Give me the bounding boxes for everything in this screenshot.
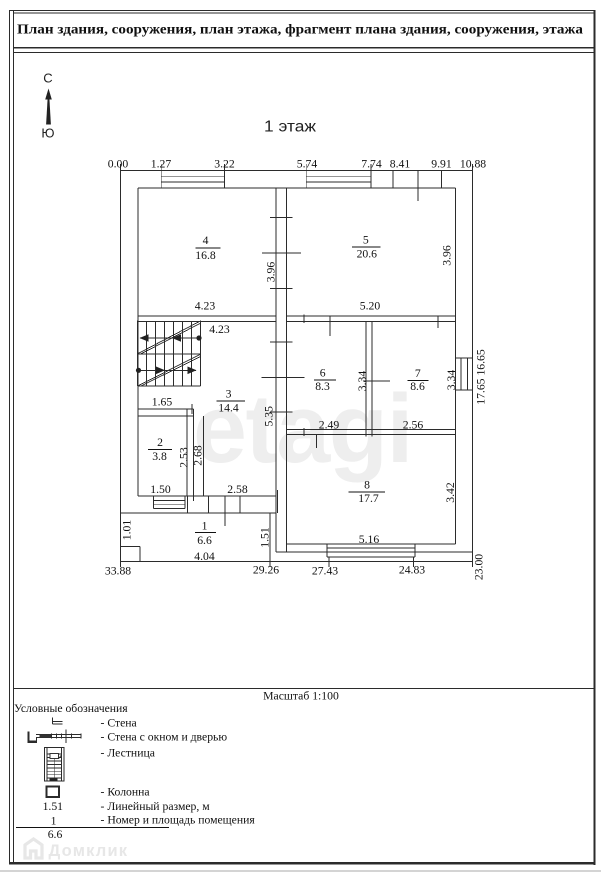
svg-text:6.6: 6.6: [197, 534, 212, 547]
svg-text:8.41: 8.41: [390, 158, 411, 171]
svg-text:5: 5: [363, 234, 369, 247]
svg-text:16.8: 16.8: [195, 249, 216, 262]
svg-text:Домклик: Домклик: [49, 842, 129, 860]
svg-text:- Номер и площадь помещения: - Номер и площадь помещения: [101, 814, 256, 827]
svg-text:5.74: 5.74: [297, 158, 318, 171]
svg-text:3.22: 3.22: [214, 158, 235, 171]
svg-text:8.6: 8.6: [410, 380, 425, 393]
svg-text:6.6: 6.6: [48, 828, 63, 841]
svg-text:29.26: 29.26: [253, 564, 279, 577]
svg-text:1.51: 1.51: [259, 527, 272, 548]
svg-text:3.96: 3.96: [441, 245, 454, 266]
svg-text:23.00: 23.00: [473, 554, 486, 580]
svg-text:3.42: 3.42: [444, 482, 457, 503]
svg-text:2.56: 2.56: [403, 419, 424, 432]
svg-text:С: С: [43, 71, 52, 86]
svg-text:2.68: 2.68: [192, 445, 205, 466]
svg-text:4.04: 4.04: [194, 550, 215, 563]
svg-text:1 этаж: 1 этаж: [264, 119, 317, 136]
svg-text:4: 4: [203, 234, 209, 247]
svg-text:1.65: 1.65: [152, 396, 173, 409]
svg-text:Масштаб 1:100: Масштаб 1:100: [263, 690, 339, 703]
svg-text:2.53: 2.53: [178, 447, 191, 468]
svg-text:7: 7: [415, 367, 421, 380]
svg-text:27.43: 27.43: [312, 565, 338, 578]
svg-text:1: 1: [51, 815, 57, 828]
svg-text:- Стена с окном и дверью: - Стена с окном и дверью: [101, 731, 228, 744]
svg-text:8: 8: [364, 479, 370, 492]
svg-text:Условные обозначения: Условные обозначения: [14, 702, 128, 715]
svg-text:3.34: 3.34: [445, 370, 458, 391]
svg-text:- Колонна: - Колонна: [101, 786, 151, 799]
svg-text:1.27: 1.27: [151, 158, 172, 171]
svg-text:14.4: 14.4: [218, 402, 239, 415]
svg-text:2.49: 2.49: [319, 419, 340, 432]
svg-text:3: 3: [226, 388, 232, 401]
svg-text:17.7: 17.7: [358, 492, 379, 505]
svg-text:1: 1: [202, 520, 208, 533]
svg-text:3.34: 3.34: [356, 371, 369, 392]
svg-text:9.91: 9.91: [431, 158, 452, 171]
svg-text:- Стена: - Стена: [101, 717, 138, 730]
svg-text:10.88: 10.88: [460, 158, 486, 171]
svg-text:4.23: 4.23: [209, 323, 230, 336]
svg-text:1.01: 1.01: [121, 520, 134, 541]
svg-text:7.74: 7.74: [361, 158, 382, 171]
svg-text:3.96: 3.96: [265, 262, 278, 283]
svg-text:6: 6: [320, 367, 326, 380]
svg-text:3.8: 3.8: [152, 450, 167, 463]
svg-text:17.65 16.65: 17.65 16.65: [475, 349, 488, 405]
svg-text:1.50: 1.50: [150, 483, 171, 496]
svg-text:- Лестница: - Лестница: [101, 747, 156, 760]
svg-text:2: 2: [157, 436, 163, 449]
svg-text:5.35: 5.35: [263, 406, 276, 427]
svg-text:33.88: 33.88: [105, 565, 131, 578]
svg-text:1.51: 1.51: [43, 800, 64, 813]
svg-text:4.23: 4.23: [195, 300, 216, 313]
svg-text:5.16: 5.16: [359, 533, 380, 546]
svg-text:План здания, сооружения, план: План здания, сооружения, план этажа, фра…: [17, 22, 583, 37]
svg-text:- Линейный размер, м: - Линейный размер, м: [101, 800, 211, 813]
svg-text:5.20: 5.20: [360, 300, 381, 313]
svg-text:0.00: 0.00: [108, 158, 129, 171]
svg-text:2.58: 2.58: [227, 483, 248, 496]
svg-text:20.6: 20.6: [357, 248, 378, 261]
svg-text:8.3: 8.3: [315, 380, 330, 393]
svg-text:Ю: Ю: [41, 126, 54, 141]
svg-text:24.83: 24.83: [399, 564, 425, 577]
